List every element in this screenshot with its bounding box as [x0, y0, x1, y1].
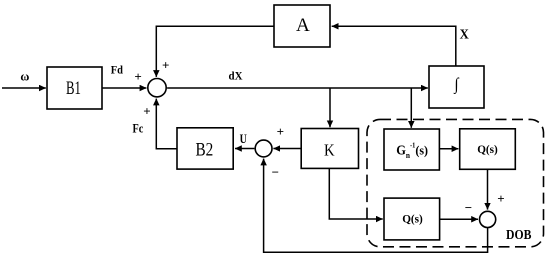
block Q(s) bottom	[384, 198, 440, 240]
svg-text:B1: B1	[66, 79, 81, 99]
wire: K output into S2	[273, 148, 301, 150]
sign + (K into S2)	[277, 124, 284, 139]
node omega label	[20, 68, 29, 83]
svg-text:Fc: Fc	[133, 122, 144, 136]
block Q(s) top	[460, 129, 516, 170]
block K	[301, 129, 358, 169]
svg-text:B2: B2	[196, 139, 214, 160]
node DOB label	[506, 227, 531, 242]
svg-text:dX: dX	[229, 71, 244, 83]
wire: bottom Q(s) into S3	[440, 218, 478, 220]
svg-text:K: K	[324, 140, 335, 159]
sign + (Fd into S1)	[134, 69, 141, 84]
node Fc label	[133, 122, 144, 136]
svg-text:Q(s): Q(s)	[477, 142, 498, 156]
svg-text:−: −	[272, 165, 279, 180]
block A	[274, 5, 330, 47]
wire: branch down to K	[329, 88, 331, 127]
svg-text:−: −	[465, 200, 472, 215]
node X label	[460, 26, 469, 41]
wire: branch down to Gn block	[410, 88, 412, 128]
svg-text:+: +	[277, 124, 284, 139]
svg-text:Fd: Fd	[111, 65, 124, 77]
sign + (top Q into S3)	[497, 191, 504, 206]
block B1	[47, 67, 102, 109]
wire: A output left then down into S1 top	[156, 26, 274, 77]
svg-text:ω: ω	[20, 68, 29, 83]
wire: omega input into B1	[2, 87, 46, 89]
wire: B2 output left then up into S1 bottom (Fc)	[156, 99, 177, 149]
svg-text:A: A	[296, 16, 310, 36]
summing junction S3	[480, 211, 496, 227]
summing junction S2	[255, 140, 272, 157]
wire: K bottom down then right into bottom Q(s)	[329, 168, 382, 219]
node dX label	[229, 71, 244, 83]
wire: B1 to summing junction S1	[102, 87, 146, 89]
svg-text:+: +	[134, 69, 141, 84]
wire: S2 output to B2 (U)	[235, 148, 254, 150]
svg-text:+: +	[497, 191, 504, 206]
summing junction S1	[148, 79, 166, 97]
wire: S3 output down, left along bottom, up into S2 bottom	[264, 159, 488, 253]
block Gn^-1(s)	[384, 129, 439, 170]
sign + (Fc into S1 bottom)	[143, 104, 150, 119]
svg-text:+: +	[162, 58, 169, 73]
node U label	[240, 132, 247, 146]
block integrator	[429, 66, 484, 108]
sign + (A feedback into S1 top)	[162, 58, 169, 73]
wire: S1 output dX to integrator	[167, 87, 428, 89]
svg-text:X: X	[460, 26, 469, 41]
sign - (bottom Q into S3)	[465, 200, 472, 215]
svg-text:U: U	[240, 132, 247, 146]
svg-text:DOB: DOB	[506, 227, 531, 242]
svg-text:Q(s): Q(s)	[402, 212, 423, 226]
node Fd label	[111, 65, 124, 77]
block B2	[177, 128, 233, 169]
wire: integrator top up and left to A	[332, 26, 456, 66]
wire: Gn to top Q(s)	[439, 148, 458, 150]
svg-text:+: +	[143, 104, 150, 119]
DOB dashed box	[367, 119, 544, 246]
sign - (DOB into S2)	[272, 165, 279, 180]
wire: top Q(s) down into S3	[487, 169, 489, 209]
